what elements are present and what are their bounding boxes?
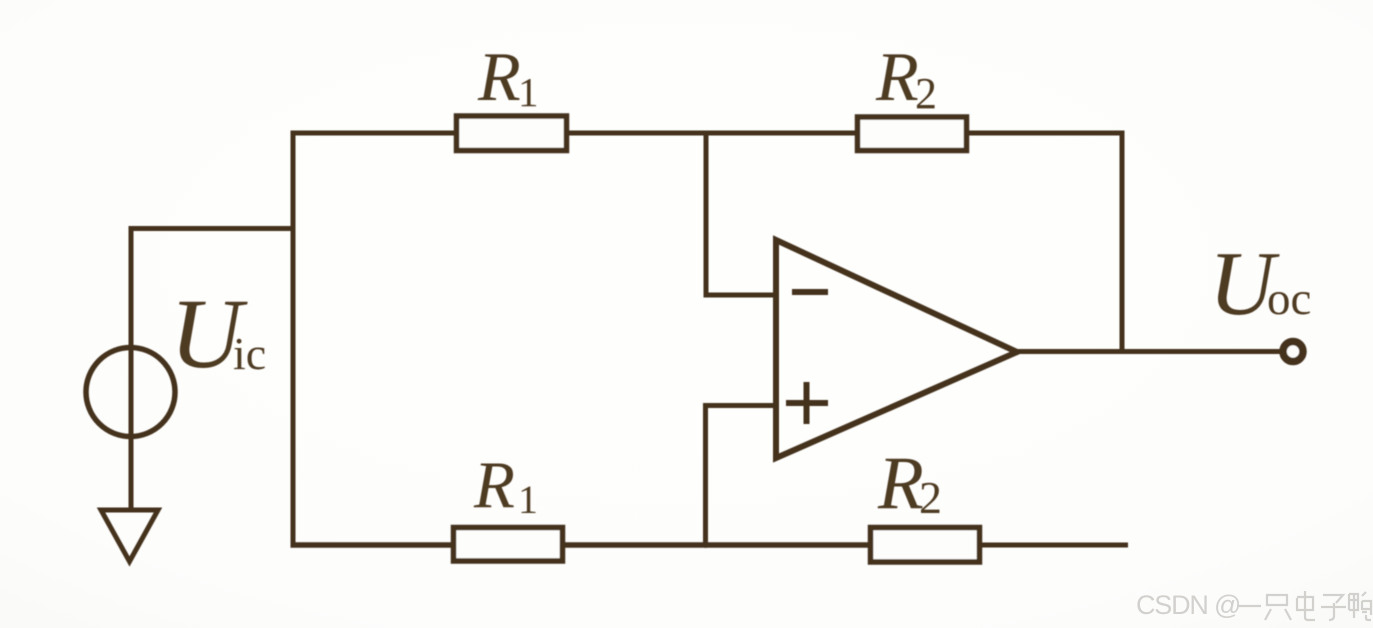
只 (1265, 595, 1291, 620)
wire: bottom rail stub after R2 (979, 543, 1128, 548)
output terminal circle (1283, 342, 1303, 362)
一 (1237, 605, 1261, 607)
label U_oc (1209, 233, 1311, 334)
watermark CSDN (1136, 590, 1240, 620)
svg-text:R: R (477, 39, 521, 116)
wire: top rail from node to R2 (704, 131, 857, 136)
svg-text:1: 1 (518, 477, 538, 522)
wire: output line (1015, 349, 1282, 354)
svg-text:ic: ic (233, 328, 266, 379)
source U_ic circle (86, 348, 175, 437)
resistor R2 (bottom) body (871, 528, 980, 563)
label U_ic (170, 278, 266, 389)
svg-text:R: R (875, 39, 919, 116)
label R1 (bottom) (473, 448, 538, 522)
wire: inverting branch vertical (704, 131, 709, 298)
wire: source vertical lead through circle (129, 226, 134, 510)
op-amp minus sign (792, 289, 828, 295)
ground arrow (open triangle) (101, 510, 158, 562)
wire: top rail from R1 to inverting node (567, 131, 708, 136)
鸭 (1349, 592, 1371, 620)
wire: left vertical bus (291, 131, 296, 548)
wire: bottom rail from node to R2 (704, 542, 870, 548)
resistor R1 (top) body (457, 116, 567, 151)
label R1 (top) (477, 39, 539, 116)
label R2 (bottom) (877, 442, 942, 525)
wire: non-inverting branch horizontal from op-amp (703, 403, 778, 408)
wire: bottom rail from left vertical to R1 (291, 542, 454, 548)
label R2 (top) (875, 39, 937, 118)
svg-text:2: 2 (915, 69, 937, 118)
wire: bottom rail from R1 to non-inverting node (563, 542, 707, 548)
svg-text:2: 2 (919, 472, 942, 523)
子 (1321, 595, 1346, 620)
svg-text:oc: oc (1267, 273, 1311, 325)
电 (1297, 591, 1315, 620)
op-amp plus sign (786, 382, 828, 424)
wire: non-inverting branch vertical to bottom rail (703, 403, 708, 548)
wire: top rail from R2 to feedback corner (966, 131, 1125, 136)
wire: inverting branch horizontal to op-amp (704, 293, 779, 298)
wire: top rail from left vertical to R1 (291, 131, 457, 136)
wire: feedback vertical down to output line (1120, 131, 1125, 352)
watermark chinese glyphs (1237, 591, 1371, 620)
svg-text:R: R (473, 448, 515, 522)
resistor R2 (top) body (858, 117, 967, 151)
svg-text:CSDN @: CSDN @ (1136, 590, 1240, 620)
wire: source top lead horizontal (129, 226, 295, 231)
op-amp U1 triangle (776, 240, 1017, 458)
svg-text:1: 1 (518, 69, 539, 115)
resistor R1 (bottom) body (454, 528, 563, 562)
svg-text:R: R (877, 442, 924, 525)
